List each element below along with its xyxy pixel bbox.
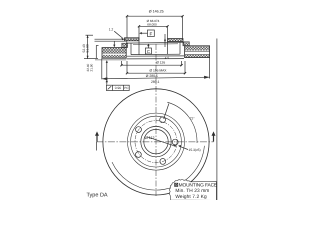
leader through hub — [147, 137, 177, 147]
svg-text:280.1: 280.1 — [151, 80, 160, 84]
hat edge circle — [128, 113, 185, 170]
friction ring right bottom hatch — [185, 55, 210, 58]
left height dimension rotated text — [82, 44, 90, 52]
friction ring right top hatch — [185, 46, 210, 51]
bore edge left — [138, 41, 140, 55]
svg-text:Ø 156 MAX: Ø 156 MAX — [149, 69, 167, 73]
bore edge right — [167, 42, 169, 55]
svg-text:15.3(x5): 15.3(x5) — [189, 148, 201, 152]
cutting plane line — [95, 131, 216, 150]
hat wall right — [180, 42, 183, 55]
svg-text:Min. TH 23 mm: Min. TH 23 mm — [175, 188, 209, 194]
angle dimension arc R41 — [167, 102, 197, 143]
hat ceiling line — [127, 41, 184, 44]
hat ceiling line 2 — [133, 43, 178, 46]
sheet frame line right — [216, 39, 218, 201]
mounting face note block — [175, 183, 217, 201]
svg-text:Weight 7.2 Kg: Weight 7.2 Kg — [175, 194, 207, 200]
rim inner arc — [112, 146, 204, 190]
friction ring right outline — [185, 46, 210, 58]
chamfer callout 1.2 — [109, 27, 124, 40]
svg-text:68.000: 68.000 — [147, 22, 157, 26]
parallelism frame 0.90 PC — [106, 60, 130, 90]
svg-text:PC: PC — [124, 86, 129, 90]
bolt hole left — [136, 127, 142, 133]
center bore circle — [144, 129, 168, 153]
svg-text:Ø 126: Ø 126 — [156, 61, 165, 65]
mounting face note cloud — [169, 180, 216, 201]
pad thickness rotated text — [86, 63, 93, 71]
hat slab left (hatched) — [125, 38, 140, 41]
svg-text:0.90: 0.90 — [115, 86, 122, 90]
bolt hole bottom left — [136, 152, 142, 158]
svg-text:MOUNTING FACE: MOUNTING FACE — [179, 183, 217, 189]
bolt hole top — [160, 117, 166, 123]
svg-text:1.2: 1.2 — [109, 27, 114, 31]
bolt hole right — [172, 139, 178, 145]
left rim lines — [95, 39, 127, 41]
svg-text:Type DA: Type DA — [87, 192, 108, 198]
dimension D68 line — [138, 25, 169, 40]
svg-text:72°: 72° — [190, 117, 196, 121]
dimension D280.5/280.1 — [102, 58, 210, 81]
hat slab right (hatched) — [168, 39, 184, 42]
hub flange circle — [131, 116, 182, 167]
friction ring left top hatch — [102, 48, 126, 53]
bolt hole leader 15.3(x5) — [178, 145, 201, 152]
datum box F — [139, 30, 154, 37]
friction ring left vent line — [102, 52, 126, 54]
dimension D146.25 line — [126, 15, 184, 40]
disc OD left face — [96, 45, 98, 58]
neck hatch left — [122, 43, 128, 47]
svg-text:Ø 146.25: Ø 146.25 — [149, 10, 164, 14]
svg-text:C: C — [147, 49, 150, 54]
plate thickness mini dimension — [164, 34, 166, 47]
svg-text:51.90: 51.90 — [86, 44, 90, 52]
leader arrow onto left pad — [113, 41, 115, 47]
bolt circle — [135, 121, 177, 163]
svg-text:4.5: 4.5 — [165, 56, 170, 60]
hat wall left — [127, 41, 131, 55]
hub register circle — [141, 126, 171, 156]
front view outer circle — [103, 89, 209, 195]
friction ring right vent lines — [185, 51, 210, 54]
friction ring left bottom hatch — [102, 55, 126, 58]
dimension D156 MAX — [126, 61, 186, 74]
dimension D126 — [120, 61, 182, 66]
bolt hole bottom right — [160, 159, 166, 165]
friction ring left outline — [102, 48, 126, 59]
neck hatch right — [184, 42, 190, 46]
flange lines — [127, 54, 184, 59]
angle leader 72deg — [164, 104, 196, 121]
under pad line left — [95, 59, 126, 61]
datum box C — [145, 44, 151, 54]
left height dimension — [84, 35, 98, 58]
svg-text:21.90: 21.90 — [89, 63, 93, 71]
svg-text:F: F — [149, 32, 152, 37]
centerline vertical — [155, 44, 157, 196]
